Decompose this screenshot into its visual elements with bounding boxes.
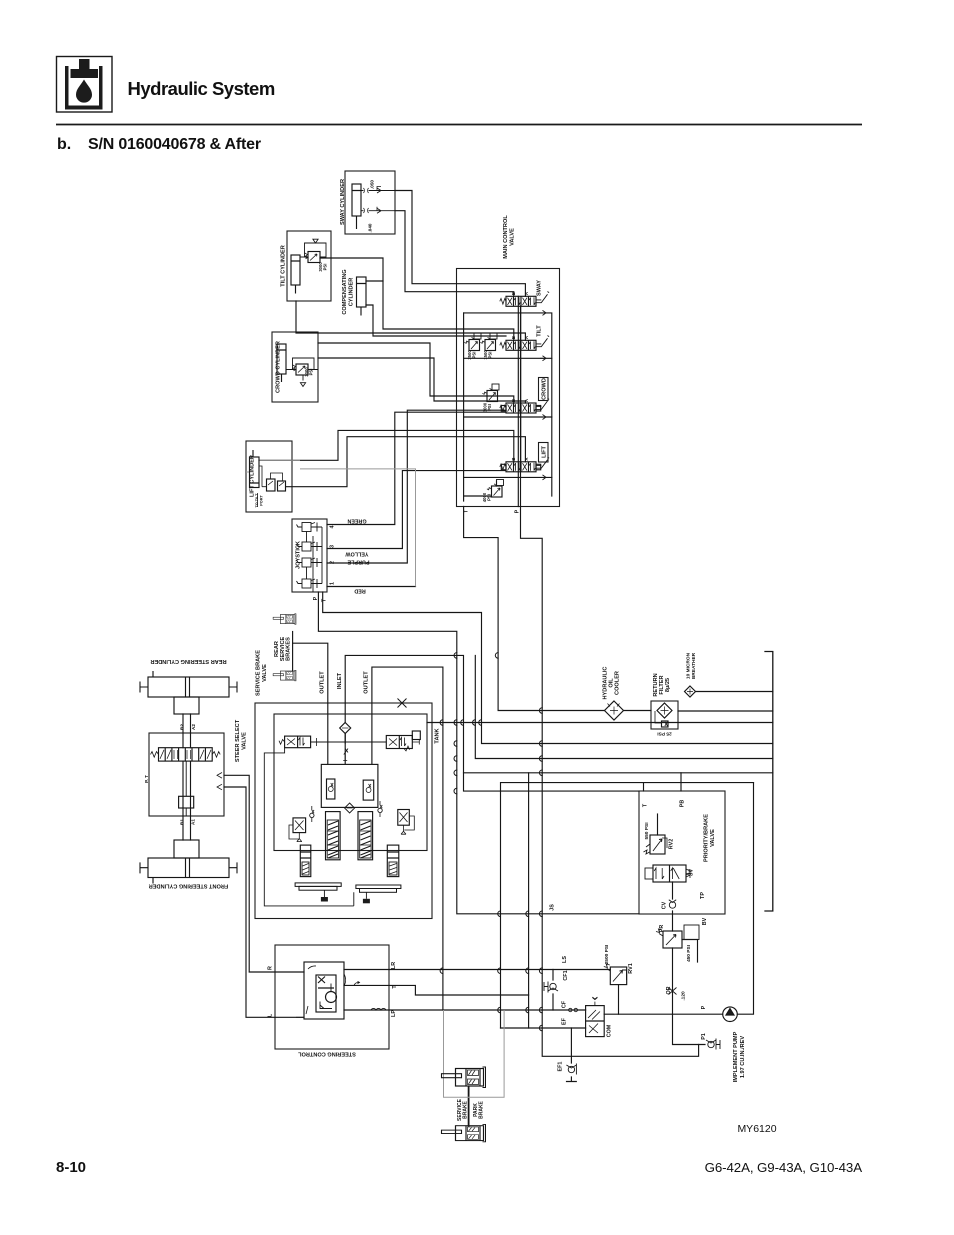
strainer diamond [340, 723, 351, 734]
MCV T port line [464, 507, 605, 711]
svg-text:MY6120: MY6120 [737, 1123, 776, 1135]
CF1 branch [552, 970, 554, 1011]
sway cyl internals [352, 184, 395, 229]
joystick T line [323, 592, 773, 744]
pump piston right [358, 812, 373, 860]
pump center diamond [345, 803, 355, 813]
pump check module left [327, 779, 335, 799]
tilt cylinder box [287, 231, 331, 301]
P1 check [706, 1039, 720, 1050]
svg-text:CF1: CF1 [563, 970, 569, 980]
header logo box [57, 57, 113, 113]
SV to CV line [672, 882, 674, 931]
priority brake valve box [639, 791, 725, 914]
svg-text:P: P [515, 509, 521, 513]
MCV section divider 2 [464, 358, 552, 417]
cooler arrows [608, 704, 620, 707]
svg-text:P: P [701, 1005, 707, 1009]
svg-text:RV1: RV1 [628, 963, 634, 973]
steer select top ports [183, 714, 191, 748]
front steering cylinder [140, 840, 237, 884]
svg-text:VALVE: VALVE [710, 829, 716, 847]
pump assembly outer box [255, 703, 432, 919]
joystick internals [297, 523, 323, 593]
svg-text:.050: .050 [370, 180, 375, 189]
rear brakes link [292, 632, 294, 672]
svg-text:COMPENSATING: COMPENSATING [342, 269, 348, 314]
pump center sub box [321, 764, 378, 807]
CF line (steering LP) [389, 1009, 586, 1011]
priority RV2 [644, 831, 668, 854]
svg-text:LR: LR [391, 962, 397, 969]
tank line upper [475, 655, 773, 758]
RV1 valve [604, 964, 627, 985]
svg-text:LIFT: LIFT [542, 446, 548, 458]
steering control box [275, 945, 389, 1049]
implement pump circle [723, 1007, 738, 1022]
svg-text:INLET: INLET [337, 672, 343, 689]
pump cylinder right [387, 845, 399, 877]
EF1 branch [567, 1028, 577, 1082]
svg-text:TP: TP [700, 892, 706, 899]
LR port line [344, 969, 389, 971]
breather diamond [685, 686, 696, 697]
CF1 check [544, 982, 558, 993]
svg-text:A1: A1 [191, 819, 196, 825]
steering T line [389, 985, 529, 995]
MCV bottom relief [487, 480, 504, 498]
EF line [501, 1027, 586, 1029]
lift cyl internals [250, 450, 286, 507]
svg-text:PSI: PSI [487, 494, 492, 501]
svg-text:S/N 0160040678 & After: S/N 0160040678 & After [88, 136, 261, 153]
svg-text:RED: RED [354, 588, 365, 594]
pump riser line [737, 783, 753, 1015]
filter to tank line [678, 710, 773, 712]
svg-text:25 PSI: 25 PSI [657, 731, 672, 737]
steer select spool [151, 748, 223, 816]
lift line B [259, 430, 514, 461]
pump plug X [398, 699, 407, 708]
svg-text:COM: COM [607, 1024, 613, 1037]
svg-text:B1: B1 [180, 819, 185, 825]
yellow pilot wire [327, 471, 506, 549]
svg-text:B2: B2 [180, 724, 185, 730]
header rule [56, 124, 862, 126]
crowd spool [500, 398, 549, 413]
main control valve outer box [457, 269, 560, 507]
cooler to filter line [624, 710, 652, 712]
svg-text:PSI: PSI [488, 352, 493, 359]
svg-text:P1: P1 [701, 1033, 707, 1040]
svg-text:STEER SELECT: STEER SELECT [235, 719, 241, 762]
svg-text:CYLINDER: CYLINDER [349, 278, 355, 307]
breather line [696, 691, 773, 693]
PR gauge branch [682, 940, 698, 963]
tilt rod line [296, 301, 525, 340]
svg-text:VALVE: VALVE [242, 732, 248, 750]
svg-text:450 PSI: 450 PSI [686, 944, 692, 962]
svg-text:BREATHER: BREATHER [691, 652, 697, 679]
COM valve [569, 997, 605, 1037]
svg-text:1.97 CU.IN./REV: 1.97 CU.IN./REV [740, 1036, 746, 1079]
tilt spool [500, 336, 549, 351]
svg-text:OUTLET: OUTLET [364, 671, 370, 694]
svg-text:TANK: TANK [435, 728, 441, 743]
brake valve outlet line [293, 643, 328, 703]
service brake assembly [442, 1067, 486, 1088]
LS line [389, 969, 610, 971]
MCV section divider 4 [464, 477, 552, 496]
inlet strainer drop [344, 703, 346, 743]
compensating cylinder top line [366, 280, 383, 282]
lift line A [287, 437, 526, 487]
inlet suction line [345, 655, 639, 791]
svg-text:VALVE: VALVE [262, 664, 268, 682]
svg-text:IMPLEMENT PUMP: IMPLEMENT PUMP [733, 1031, 739, 1082]
priority supply line [501, 783, 754, 1028]
joystick P line [318, 592, 639, 914]
pump cylinder left [300, 845, 311, 877]
steer select P line [224, 775, 304, 972]
svg-text:BRAKE: BRAKE [463, 1100, 469, 1118]
priority PB port stub [680, 773, 682, 791]
return filter box [651, 701, 678, 729]
svg-text:VALVE: VALVE [510, 228, 516, 246]
crowd spool end caps [501, 406, 506, 412]
header logo glyph [65, 59, 103, 110]
svg-text:COOLER: COOLER [615, 671, 621, 695]
svg-text:.040: .040 [368, 223, 373, 232]
tilt relief 2 [480, 333, 497, 351]
svg-text:CV: CV [662, 901, 668, 909]
gray lift line [246, 460, 300, 472]
lift spool [500, 457, 549, 472]
svg-text:REAR STEERING CYLINDER: REAR STEERING CYLINDER [150, 658, 226, 664]
lift spool end caps [501, 464, 506, 470]
lift cylinder box [246, 441, 292, 512]
tilt cyl internals [291, 239, 326, 293]
PR valve [656, 925, 699, 948]
CV check [669, 900, 676, 908]
sway spool [500, 292, 549, 307]
cooler diamond [605, 701, 624, 720]
pump base plate left [295, 883, 341, 902]
svg-text:A2: A2 [191, 724, 196, 730]
crowd cylinder box [272, 332, 318, 402]
svg-text:CROWD CYLINDER: CROWD CYLINDER [276, 341, 282, 393]
svg-text:R: R [268, 966, 274, 970]
steering control unit [296, 962, 386, 1019]
crowd line B [318, 343, 514, 403]
pump piston left [326, 812, 341, 860]
svg-text:GREEN: GREEN [347, 518, 366, 524]
MCV inner left vertical [463, 313, 465, 501]
pump check module right [363, 780, 374, 800]
sway cylinder box [345, 171, 395, 234]
tank bracket [765, 652, 773, 912]
svg-text:LS: LS [562, 956, 568, 963]
svg-text:OUTLET: OUTLET [320, 671, 326, 694]
RV1 drain [618, 985, 620, 1015]
EF drain vertical [528, 773, 530, 1028]
steer select valve box [149, 733, 224, 816]
svg-text:G6-42A, G9-43A, G10-43A: G6-42A, G9-43A, G10-43A [705, 1160, 863, 1175]
park brake assembly [442, 1124, 486, 1141]
pump valve link line [311, 741, 387, 743]
pump assembly inner box [274, 714, 427, 851]
sway cylinder line B [395, 211, 514, 297]
tank line lower [464, 772, 773, 774]
MCV P gallery verticals [518, 296, 520, 506]
compensating cylinder bottom line [366, 305, 506, 336]
svg-text:SWAY: SWAY [537, 280, 543, 296]
pump base plate right [356, 885, 401, 903]
pump check left [310, 806, 314, 822]
svg-text:LP: LP [391, 1010, 397, 1017]
crowd section label box [539, 378, 549, 401]
svg-text:PSI: PSI [323, 264, 328, 271]
brake supply line [372, 667, 443, 1010]
sway cylinder line A [395, 191, 525, 297]
green pilot wire [327, 412, 506, 524]
pump return line [427, 722, 773, 724]
pump small valve left [289, 818, 306, 842]
tilt valve to MCV line [320, 258, 514, 340]
svg-text:PB: PB [680, 800, 686, 808]
svg-text:Hydraulic System: Hydraulic System [128, 78, 275, 99]
MCV section divider 3 [464, 417, 552, 477]
svg-text:JOYSTICK: JOYSTICK [296, 541, 302, 569]
svg-text:b.: b. [57, 136, 71, 153]
priority T port stub [643, 783, 645, 791]
park brake circuit outline [444, 1010, 505, 1097]
rear service brake cyl 1 [273, 614, 296, 625]
svg-text:TO TILT: TO TILT [255, 493, 259, 508]
pump inlet check [343, 749, 348, 761]
rear service brake cyl 2 [273, 670, 296, 681]
svg-text:CF: CF [562, 1000, 568, 1008]
svg-text:JS: JS [550, 904, 556, 911]
steer select bottom ports [183, 761, 191, 840]
purple pilot wire [327, 410, 506, 563]
MCV section divider 1 [464, 313, 552, 358]
COM to pump P line [604, 1013, 723, 1015]
svg-text:BRAKES: BRAKES [286, 637, 292, 661]
lift section label box [539, 443, 549, 463]
line hop arcs [440, 653, 542, 1031]
pump drain path [264, 748, 353, 906]
svg-text:EF: EF [562, 1017, 568, 1025]
svg-text:3: 3 [330, 545, 336, 548]
svg-text:BV: BV [702, 917, 708, 925]
tilt relief 1 [464, 333, 481, 351]
priority SV spool [645, 865, 690, 882]
service to park brake link [468, 1087, 470, 1126]
svg-text:TILT CYLINDER: TILT CYLINDER [281, 245, 287, 287]
crowd relief [482, 384, 499, 402]
LP port line steering [344, 1009, 389, 1011]
svg-text:TILT: TILT [537, 325, 543, 337]
PR to OR to P1 line [673, 948, 706, 1045]
svg-text:EF1: EF1 [558, 1062, 564, 1072]
svg-text:PRIORITY/BRAKE: PRIORITY/BRAKE [704, 814, 710, 862]
svg-text:BRAKE: BRAKE [479, 1100, 485, 1118]
T port line steering [344, 984, 389, 986]
svg-text:STEERING CONTROL: STEERING CONTROL [298, 1051, 356, 1057]
pump left valve [279, 736, 317, 748]
svg-text:2500 PSI: 2500 PSI [604, 944, 610, 964]
MCV P port line [521, 306, 699, 1056]
svg-text:8µ/25: 8µ/25 [665, 678, 671, 692]
pump check right [378, 801, 382, 817]
svg-text:4: 4 [330, 526, 336, 529]
svg-text:10 MICRON: 10 MICRON [686, 652, 692, 679]
OR orifice [669, 988, 677, 995]
rear steering cylinder [140, 671, 237, 714]
svg-text:LIFT CYLINDER: LIFT CYLINDER [250, 455, 256, 497]
gray vent line [300, 469, 416, 587]
svg-text:.120: .120 [681, 991, 687, 1001]
svg-text:P. T: P. T [144, 775, 149, 783]
crowd line A [318, 358, 525, 403]
svg-text:PSI: PSI [472, 352, 477, 359]
svg-text:FRONT STEERING CYLINDER: FRONT STEERING CYLINDER [149, 883, 229, 889]
svg-text:550 PSI: 550 PSI [644, 822, 650, 840]
svg-text:MAIN CONTROL: MAIN CONTROL [503, 215, 509, 259]
pump right valve [386, 731, 420, 751]
svg-text:SERVICE BRAKE: SERVICE BRAKE [256, 650, 262, 696]
svg-text:SWAY CYLINDER: SWAY CYLINDER [340, 179, 346, 225]
svg-text:PURPLE: PURPLE [347, 559, 369, 565]
joystick box [292, 519, 327, 592]
RV2 drain stub [657, 814, 659, 835]
MCV bottom relief line [464, 481, 497, 496]
filter diamond [655, 703, 672, 727]
gray auxiliary lines [246, 460, 504, 1097]
steer select T line [224, 787, 304, 1017]
red pilot wire [327, 586, 416, 588]
svg-text:YELLOW: YELLOW [345, 551, 369, 557]
svg-text:RV2: RV2 [669, 839, 675, 849]
EF1 check [566, 1064, 576, 1075]
svg-text:8-10: 8-10 [56, 1159, 86, 1176]
svg-text:CROWD: CROWD [542, 378, 548, 400]
MCV section arrows [540, 310, 546, 480]
crowd cyl internals [277, 344, 318, 387]
svg-text:PORT: PORT [260, 495, 264, 506]
pump small valve right [398, 810, 415, 835]
svg-text:1: 1 [330, 582, 336, 585]
pump port drop lines [328, 703, 372, 764]
compensating cylinder symbol [357, 277, 367, 316]
